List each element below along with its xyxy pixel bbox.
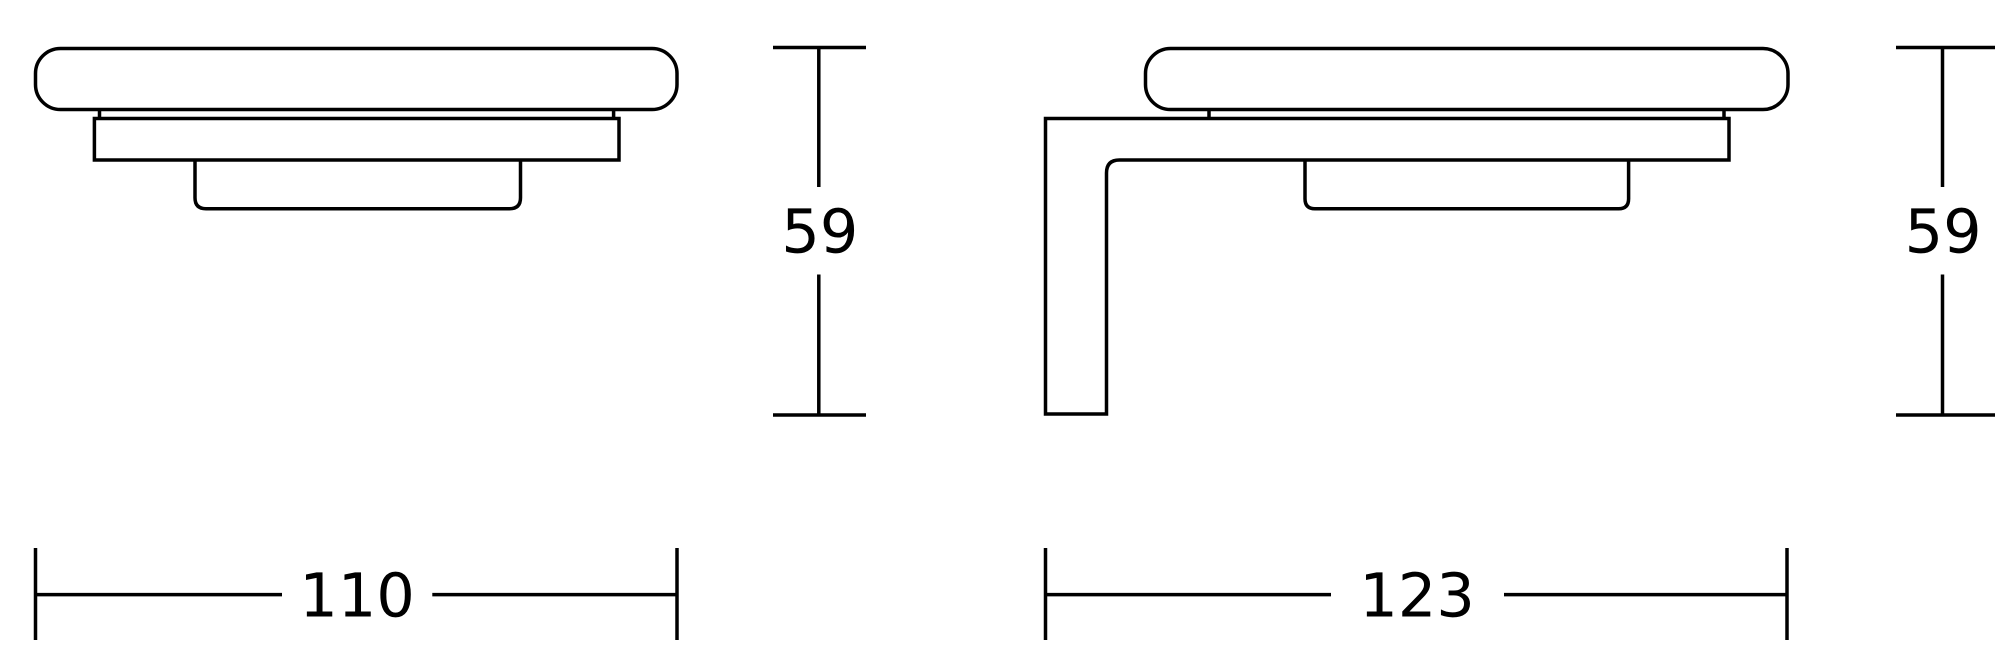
dimension text 110	[306, 572, 411, 618]
right view: right connector	[1722, 110, 1726, 119]
dimension 110: left tick	[34, 548, 38, 640]
dimension 123: right tick	[1785, 548, 1789, 640]
right view: dish bowl	[1305, 160, 1629, 209]
left view: dish bowl	[195, 160, 521, 209]
left view: right connector	[612, 110, 616, 119]
dimension 59 (right): top tick	[1896, 46, 1995, 50]
dimension 59 (right): upper extension line	[1941, 48, 1945, 188]
right view: L wall bracket	[1046, 119, 1730, 415]
dimension 59 (left): bottom tick	[773, 413, 866, 417]
dimension 59 (right): lower extension line	[1941, 275, 1945, 416]
dimension 123: right segment	[1504, 593, 1787, 597]
dimension 59 (left): top tick	[773, 46, 866, 50]
left view: left connector	[98, 110, 102, 119]
dimension 123: left segment	[1046, 593, 1332, 597]
right view: left connector	[1207, 110, 1211, 119]
dimension text 59 (left)	[786, 208, 854, 254]
dimension 59 (right): bottom tick	[1896, 413, 1995, 417]
left view: wall plate	[94, 119, 619, 161]
dimension 59 (left): upper extension line	[817, 48, 821, 188]
dimension text 123	[1366, 572, 1470, 618]
dimension 59 (left): lower extension line	[817, 275, 821, 416]
left view: soap dish top plate (front)	[36, 49, 678, 110]
right view: soap dish top plate (side)	[1146, 49, 1789, 110]
dimension 110: left segment	[36, 593, 283, 597]
dimension 123: left tick	[1044, 548, 1048, 640]
dimension 110: right segment	[432, 593, 677, 597]
dimension text 59 (right)	[1909, 208, 1977, 254]
dimension 110: right tick	[675, 548, 679, 640]
